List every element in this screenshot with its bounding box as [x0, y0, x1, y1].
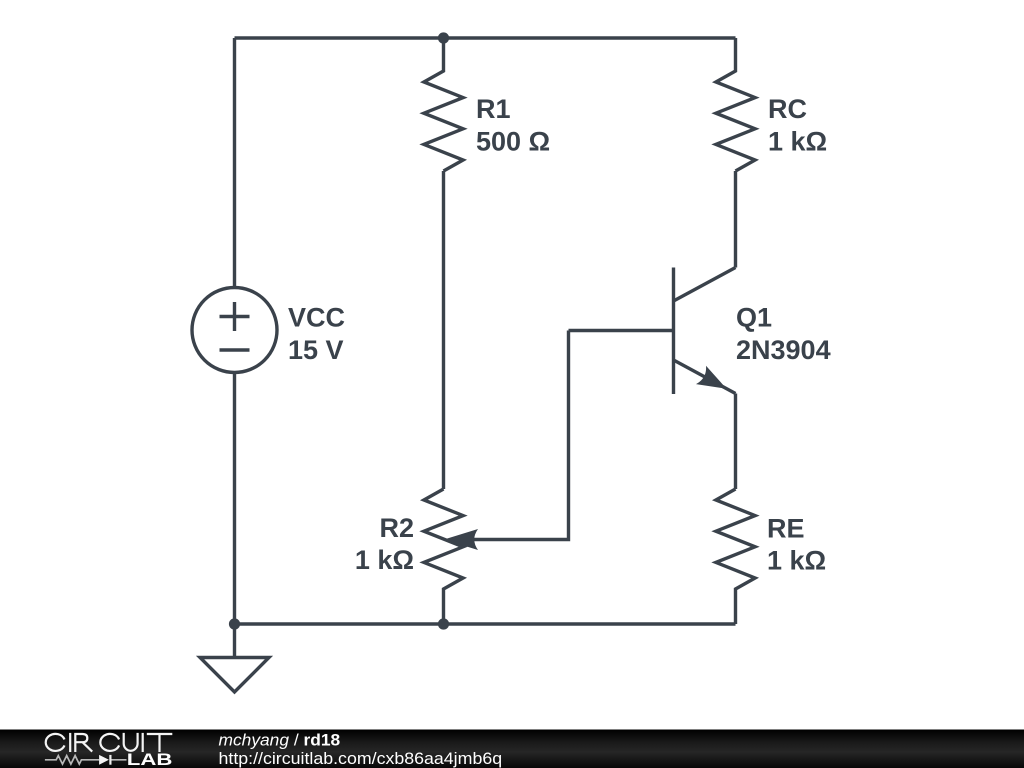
resistor R1: [424, 38, 463, 171]
resistor RC: [716, 38, 755, 171]
svg-text:1 kΩ: 1 kΩ: [355, 545, 414, 575]
wire R1 to R2: [442, 171, 445, 489]
logo CIRCUIT lettering: [46, 733, 173, 752]
wire RC to collector: [734, 171, 737, 268]
logo diode triangle: [99, 755, 109, 765]
ground stem: [233, 624, 236, 658]
resistor RE: [716, 489, 755, 624]
transistor Q1 emitter diagonal: [674, 360, 736, 394]
svg-text:LAB: LAB: [127, 751, 173, 768]
svg-text:15 V: 15 V: [288, 335, 344, 365]
junction dot bottom left: [229, 618, 240, 629]
svg-text:RE: RE: [767, 514, 805, 544]
potentiometer R2: [424, 489, 463, 624]
svg-text:R1: R1: [476, 94, 511, 124]
logo resistor squiggle wire: [45, 756, 127, 765]
wiper arrowhead: [444, 529, 478, 550]
svg-text:Q1: Q1: [736, 303, 772, 333]
wire bottom rail: [235, 622, 736, 625]
wire base: [569, 329, 674, 332]
transistor Q1 base bar: [672, 268, 675, 395]
wire left rail lower: [233, 373, 236, 625]
svg-text:1 kΩ: 1 kΩ: [767, 546, 826, 576]
voltage source V1 VCC circle: [192, 288, 277, 373]
svg-text:1 kΩ: 1 kΩ: [768, 127, 827, 157]
transistor Q1 collector diagonal: [674, 268, 736, 302]
svg-text:http://circuitlab.com/cxb86aa4: http://circuitlab.com/cxb86aa4jmb6q: [219, 750, 503, 768]
logo letter C2: [100, 734, 119, 751]
junction dot top: [438, 32, 449, 43]
emitter arrowhead: [696, 366, 727, 389]
svg-text:mchyang / rd18: mchyang / rd18: [219, 732, 341, 750]
logo letter I2: [142, 733, 144, 752]
logo letter T: [147, 734, 173, 752]
logo letter U: [124, 733, 138, 751]
plus sign: [220, 302, 250, 331]
junction dot bottom mid: [438, 618, 449, 629]
wire emitter: [734, 394, 737, 490]
svg-text:RC: RC: [768, 94, 807, 124]
wire left rail upper: [233, 38, 236, 288]
ground triangle: [200, 658, 269, 693]
logo letter C1: [46, 734, 65, 751]
svg-text:R2: R2: [379, 513, 414, 543]
logo letter I1: [69, 733, 71, 752]
svg-text:2N3904: 2N3904: [736, 335, 831, 365]
wire top rail: [235, 36, 736, 39]
svg-text:500 Ω: 500 Ω: [476, 127, 550, 157]
logo diode cathode bar: [109, 755, 111, 765]
wire wiper to base: [468, 331, 569, 540]
footer bar: [0, 730, 1024, 768]
minus sign: [220, 348, 250, 351]
logo letter R: [75, 734, 92, 752]
svg-text:VCC: VCC: [288, 303, 345, 333]
